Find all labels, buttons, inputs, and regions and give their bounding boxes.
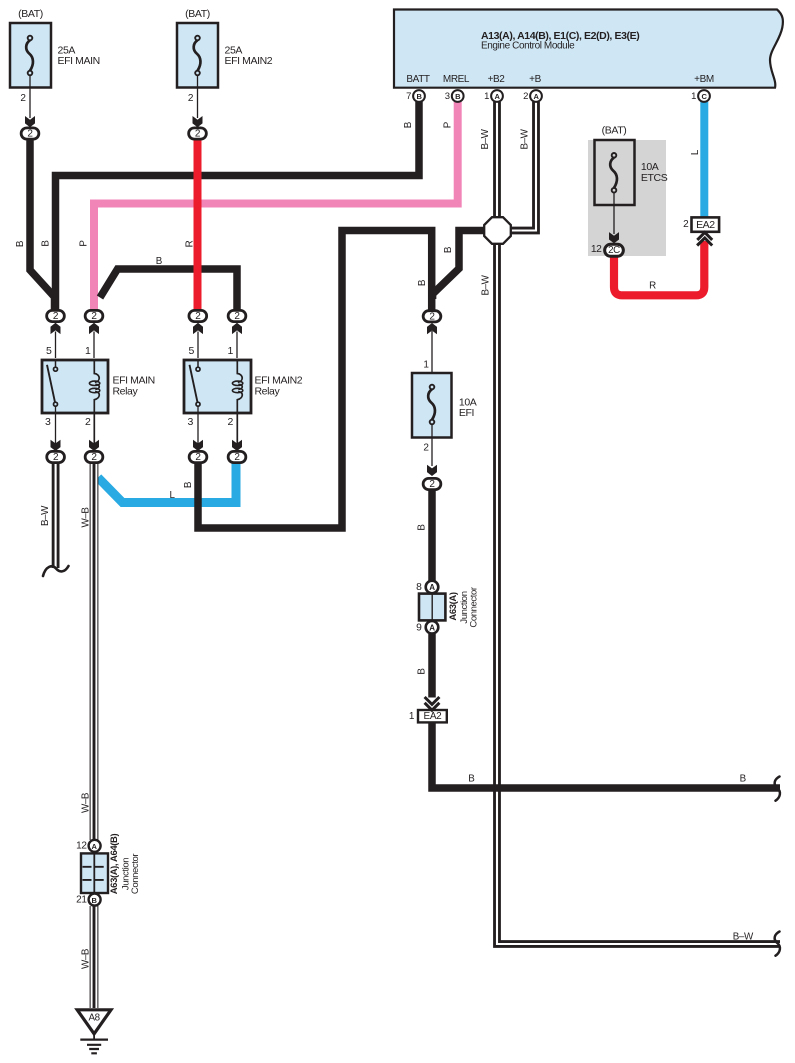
- wire P pink from ECM MREL pin to EFI MAIN relay pin 1: [94, 102, 458, 311]
- relay U1 EFI MAIN Relay: [42, 323, 155, 451]
- svg-text:3: 3: [445, 91, 450, 102]
- svg-text:1: 1: [691, 91, 696, 102]
- svg-text:2: 2: [53, 452, 59, 463]
- node connector oval 2 relay2 pin3 bottom: [189, 451, 207, 463]
- svg-text:A63(A): A63(A): [448, 592, 459, 620]
- svg-text:Engine Control Module: Engine Control Module: [481, 41, 575, 52]
- wire torn-end curl of B wire right edge: [775, 777, 780, 801]
- svg-text:1: 1: [228, 345, 234, 357]
- node connector oval 2 relay1 pin2 bottom: [85, 451, 103, 463]
- node connector oval 2C under fuse 10A ETCS: [605, 244, 624, 256]
- svg-text:B–W: B–W: [481, 274, 492, 295]
- svg-text:W–B: W–B: [81, 507, 92, 528]
- node connector oval 2 under fuse EFI MAIN: [21, 128, 39, 140]
- wire B black from junction connector 9A to EA2 chevrons: [428, 634, 436, 698]
- svg-text:B: B: [416, 668, 427, 675]
- node connector oval 2 relay1 pin3 bottom: [47, 451, 65, 463]
- svg-text:5: 5: [46, 345, 52, 357]
- svg-text:8: 8: [416, 582, 422, 593]
- wire R red from fuse EFI MAIN2 to EFI MAIN2 relay pin 5: [194, 140, 202, 311]
- svg-text:2: 2: [429, 311, 435, 322]
- svg-text:MREL: MREL: [443, 74, 470, 85]
- node ECM pin 7 B BATT: [406, 90, 425, 102]
- junction connector A63(A) 8A/9A: [416, 581, 479, 634]
- node connector oval 2 relay1 pin1 top: [85, 310, 103, 322]
- svg-text:2: 2: [228, 416, 234, 428]
- svg-text:7: 7: [406, 91, 411, 102]
- svg-text:Connector: Connector: [469, 587, 480, 627]
- svg-text:B: B: [417, 279, 428, 286]
- connector EA2 pin 2 box: [683, 217, 719, 245]
- svg-text:B–W: B–W: [520, 128, 531, 149]
- wire L blue from EFI MAIN2 relay pin 2 joining W-B: [98, 464, 236, 503]
- svg-text:A: A: [429, 623, 435, 632]
- node connector oval 2 above fuse 10A EFI: [423, 311, 441, 323]
- fuse 25A EFI MAIN: [10, 8, 100, 127]
- wire B-W long from octagon down then right to torn end: [497, 244, 780, 945]
- wire B-W stub below EFI MAIN relay pin 3: [52, 464, 60, 569]
- svg-text:+B: +B: [529, 74, 541, 85]
- svg-text:1: 1: [85, 345, 91, 357]
- wire B black from EFI MAIN2 relay pin 3 up to EFI fuse: [198, 231, 432, 529]
- svg-text:Connector: Connector: [130, 854, 141, 894]
- relay U2 EFI MAIN2 Relay: [184, 323, 303, 451]
- wire torn-end curl of B-W wire right edge: [775, 932, 780, 956]
- svg-text:BATT: BATT: [406, 74, 430, 85]
- svg-text:Relay: Relay: [113, 385, 139, 397]
- svg-text:+B2: +B2: [488, 74, 506, 85]
- svg-text:B: B: [15, 240, 26, 247]
- svg-text:R: R: [184, 240, 195, 247]
- svg-text:R: R: [649, 281, 656, 292]
- node ECM pin 1 C +BM: [691, 90, 710, 102]
- svg-text:2: 2: [53, 311, 59, 322]
- node connector oval 2 relay2 pin1 top: [228, 310, 246, 322]
- wire W-B from EFI MAIN relay pin 2 down to junction connector: [92, 464, 97, 841]
- ECM box A13(A), A14(B), E1(C), E2(D), E3(E) Engine Control Module: [394, 10, 783, 88]
- svg-text:2: 2: [234, 452, 240, 463]
- svg-text:EFI MAIN: EFI MAIN: [58, 55, 100, 67]
- svg-text:L: L: [690, 149, 701, 155]
- svg-text:P: P: [79, 240, 90, 247]
- svg-text:2: 2: [195, 311, 201, 322]
- svg-text:2: 2: [195, 129, 201, 140]
- wire R red from ETCS fuse to EA2 chevrons: [614, 241, 704, 295]
- svg-text:2: 2: [91, 311, 97, 322]
- svg-text:B: B: [443, 246, 454, 253]
- svg-text:(BAT): (BAT): [18, 8, 43, 20]
- svg-text:EA2: EA2: [696, 219, 715, 231]
- svg-text:B: B: [156, 256, 163, 267]
- svg-text:B–W: B–W: [733, 931, 754, 942]
- wire B black from ECM BATT pin to EFI MAIN relay pin 5: [56, 102, 420, 311]
- svg-text:2: 2: [27, 129, 33, 140]
- svg-text:3: 3: [188, 416, 194, 428]
- wire W-B from junction connector to ground: [92, 906, 97, 1008]
- svg-text:21: 21: [76, 895, 87, 906]
- connector EA2 pin 1 box: [409, 697, 447, 722]
- svg-text:B–W: B–W: [480, 128, 491, 149]
- svg-text:2: 2: [423, 443, 429, 454]
- svg-text:P: P: [442, 121, 453, 128]
- svg-text:2: 2: [234, 311, 240, 322]
- node ECM pin 3 B MREL: [445, 90, 464, 102]
- svg-text:1: 1: [409, 711, 415, 722]
- svg-text:12: 12: [591, 244, 602, 255]
- svg-text:EFI: EFI: [459, 407, 474, 419]
- svg-text:B: B: [416, 524, 427, 531]
- junction connector A63(A), A64(B) 12A/21B: [76, 833, 141, 905]
- wire B black from EFI fuse to junction connector 8A: [428, 490, 436, 581]
- wire B black from fuse EFI MAIN joining relay pin 5 wire: [30, 140, 55, 311]
- node connector oval 2 under fuse EFI MAIN2: [189, 128, 207, 140]
- svg-text:A: A: [429, 583, 435, 592]
- wire B black jumper relay1 pin1 to relay2 pin1: [100, 269, 237, 311]
- wire B-W from +B pin to octagon: [510, 102, 536, 231]
- svg-text:(BAT): (BAT): [602, 124, 627, 136]
- svg-text:A8: A8: [89, 1013, 101, 1024]
- svg-text:1: 1: [484, 91, 489, 102]
- svg-text:2: 2: [91, 452, 97, 463]
- svg-text:9: 9: [416, 622, 422, 633]
- svg-text:B: B: [40, 240, 51, 247]
- ETCS gray block: [588, 140, 666, 256]
- node ECM pin 1 A +B2: [484, 90, 503, 102]
- node connector oval 2 under fuse 10A EFI: [423, 478, 441, 490]
- node connector oval 2 relay1 pin5 top: [47, 310, 65, 322]
- ground A8: [77, 1010, 111, 1054]
- node ECM pin 2 A +B: [523, 90, 542, 102]
- wire B black branch from octagon to EFI fuse riser: [433, 231, 485, 300]
- svg-text:12: 12: [76, 841, 87, 852]
- fuse 10A EFI: [412, 323, 477, 476]
- fuse 25A EFI MAIN2: [177, 8, 273, 127]
- wire B black from EA2 down then right to torn end: [432, 722, 780, 788]
- node connector oval 2 relay2 pin5 top: [189, 310, 207, 322]
- node octagon junction of +B2 +B and B wires: [484, 217, 511, 244]
- fuse 10A ETCS: [591, 124, 668, 255]
- svg-text:B: B: [403, 121, 414, 128]
- svg-text:2: 2: [429, 479, 435, 490]
- svg-text:B: B: [468, 774, 475, 785]
- svg-text:2: 2: [195, 452, 201, 463]
- wire B-W from +B2 pin to junction octagon: [493, 102, 501, 218]
- wire torn-end curl of B-W stub: [43, 566, 69, 576]
- wire L blue from ECM +BM pin to EA2: [700, 102, 708, 218]
- svg-text:EFI MAIN2: EFI MAIN2: [225, 55, 273, 67]
- svg-text:2: 2: [20, 93, 26, 104]
- svg-text:B: B: [183, 481, 194, 488]
- svg-text:+BM: +BM: [694, 74, 714, 85]
- node connector oval 2 relay2 pin2 bottom: [228, 451, 246, 463]
- svg-text:2C: 2C: [608, 245, 620, 256]
- svg-text:2: 2: [683, 219, 689, 230]
- svg-text:Relay: Relay: [255, 385, 281, 397]
- svg-text:A63(A), A64(B): A63(A), A64(B): [109, 833, 120, 894]
- svg-text:W–B: W–B: [81, 792, 92, 813]
- svg-text:1: 1: [423, 359, 429, 370]
- svg-text:2: 2: [188, 93, 194, 104]
- svg-text:B: B: [740, 774, 747, 785]
- svg-text:W–B: W–B: [81, 948, 92, 969]
- svg-text:(BAT): (BAT): [185, 8, 210, 20]
- svg-text:B–W: B–W: [40, 505, 51, 526]
- svg-text:3: 3: [45, 416, 51, 428]
- svg-text:5: 5: [189, 345, 195, 357]
- svg-text:ETCS: ETCS: [641, 172, 668, 184]
- svg-text:2: 2: [85, 416, 91, 428]
- svg-text:2: 2: [523, 91, 528, 102]
- svg-text:EA2: EA2: [424, 711, 443, 722]
